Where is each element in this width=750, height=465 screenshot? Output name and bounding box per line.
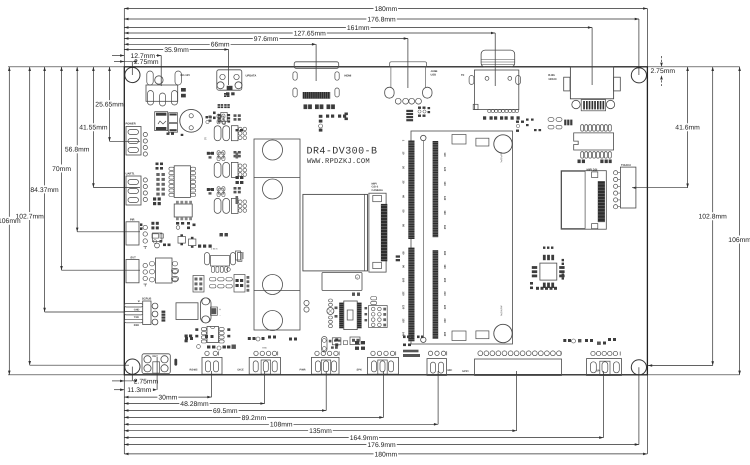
svg-text:TF: TF: [461, 74, 465, 77]
svg-text:30mm: 30mm: [158, 395, 177, 402]
svg-text:GND: GND: [262, 347, 267, 350]
svg-text:-: -: [220, 314, 221, 318]
svg-text:UART1: UART1: [126, 173, 135, 176]
svg-text:180: 180: [443, 251, 446, 256]
svg-text:RS485: RS485: [190, 369, 198, 372]
svg-text:135mm: 135mm: [309, 428, 332, 435]
svg-text:140: 140: [443, 196, 446, 201]
svg-text:WWW.RPDZKJ.COM: WWW.RPDZKJ.COM: [307, 158, 370, 166]
svg-text:160: 160: [443, 225, 446, 230]
svg-text:UPDATA: UPDATA: [246, 74, 257, 77]
svg-text:2.75mm: 2.75mm: [134, 59, 159, 66]
svg-text:69.5mm: 69.5mm: [213, 408, 238, 415]
svg-text:11.3mm: 11.3mm: [127, 387, 151, 394]
svg-text:DR4-DV300-B: DR4-DV300-B: [307, 147, 378, 158]
svg-text:GPIO: GPIO: [462, 370, 469, 373]
svg-text:BZ: BZ: [204, 137, 207, 141]
svg-text:120: 120: [402, 305, 405, 310]
svg-text:200: 200: [443, 278, 446, 283]
svg-text:100: 100: [402, 278, 405, 283]
svg-text:176.9mm: 176.9mm: [367, 442, 396, 449]
svg-text:DICE: DICE: [238, 369, 244, 372]
svg-text:102.7mm: 102.7mm: [16, 213, 45, 220]
svg-text:PIR: PIR: [130, 219, 135, 222]
svg-text:230: 230: [443, 318, 446, 323]
svg-text:240: 240: [443, 332, 446, 337]
svg-text:180mm: 180mm: [375, 451, 398, 458]
svg-text:Z 88 S: Z 88 S: [211, 248, 218, 251]
svg-text:48.28mm: 48.28mm: [180, 401, 209, 408]
svg-text:POWER: POWER: [126, 123, 136, 126]
svg-text:70mm: 70mm: [52, 166, 71, 173]
svg-text:220: 220: [443, 305, 446, 310]
svg-text:SPK: SPK: [357, 369, 362, 372]
svg-text:2.75mm: 2.75mm: [134, 378, 159, 385]
svg-text:66mm: 66mm: [211, 42, 230, 49]
svg-text:TOUCH: TOUCH: [621, 164, 631, 167]
svg-text:35.9mm: 35.9mm: [164, 47, 189, 54]
svg-text:106mm: 106mm: [728, 237, 750, 244]
svg-text:97.6mm: 97.6mm: [254, 36, 279, 43]
svg-text:108mm: 108mm: [270, 422, 293, 429]
svg-text:DC-12V: DC-12V: [181, 74, 191, 77]
svg-text:150: 150: [443, 210, 446, 215]
svg-text:127.65mm: 127.65mm: [294, 30, 326, 37]
svg-text:KEY: KEY: [153, 355, 159, 358]
svg-text:HDMI: HDMI: [344, 74, 351, 77]
svg-text:PWR: PWR: [300, 369, 306, 372]
svg-text:TXD: TXD: [134, 316, 139, 319]
svg-text:210: 210: [443, 291, 446, 296]
svg-text:AMP/SPK: AMP/SPK: [500, 306, 503, 317]
svg-text:120: 120: [443, 167, 446, 172]
svg-text:RJ45: RJ45: [548, 74, 555, 77]
svg-text:161mm: 161mm: [347, 25, 370, 32]
svg-text:SCRUS: SCRUS: [142, 297, 152, 300]
svg-text:EVT: EVT: [131, 256, 137, 259]
svg-text:CAMERA: CAMERA: [372, 189, 384, 192]
svg-text:2.75mm: 2.75mm: [651, 68, 676, 75]
svg-text:130: 130: [402, 318, 405, 323]
svg-text:AMP/SPK: AMP/SPK: [500, 152, 503, 163]
svg-text:89.2mm: 89.2mm: [242, 415, 267, 422]
svg-text:41.6mm: 41.6mm: [675, 125, 700, 132]
svg-text:180mm: 180mm: [375, 6, 398, 13]
svg-text:USB: USB: [431, 74, 437, 77]
svg-text:190: 190: [443, 264, 446, 269]
svg-text:25.65mm: 25.65mm: [95, 102, 124, 109]
svg-text:176.8mm: 176.8mm: [367, 16, 396, 23]
svg-text:+: +: [219, 308, 221, 312]
svg-text:110: 110: [443, 152, 446, 157]
svg-text:MIC: MIC: [448, 369, 453, 372]
svg-text:102.8mm: 102.8mm: [699, 214, 728, 221]
svg-text:130: 130: [443, 181, 446, 186]
svg-text:41.55mm: 41.55mm: [79, 125, 108, 132]
svg-text:84.37mm: 84.37mm: [30, 187, 59, 194]
svg-text:RXD: RXD: [134, 324, 139, 327]
svg-text:10/100: 10/100: [548, 78, 557, 81]
svg-text:56.8mm: 56.8mm: [65, 147, 90, 154]
svg-text:110: 110: [402, 291, 405, 296]
